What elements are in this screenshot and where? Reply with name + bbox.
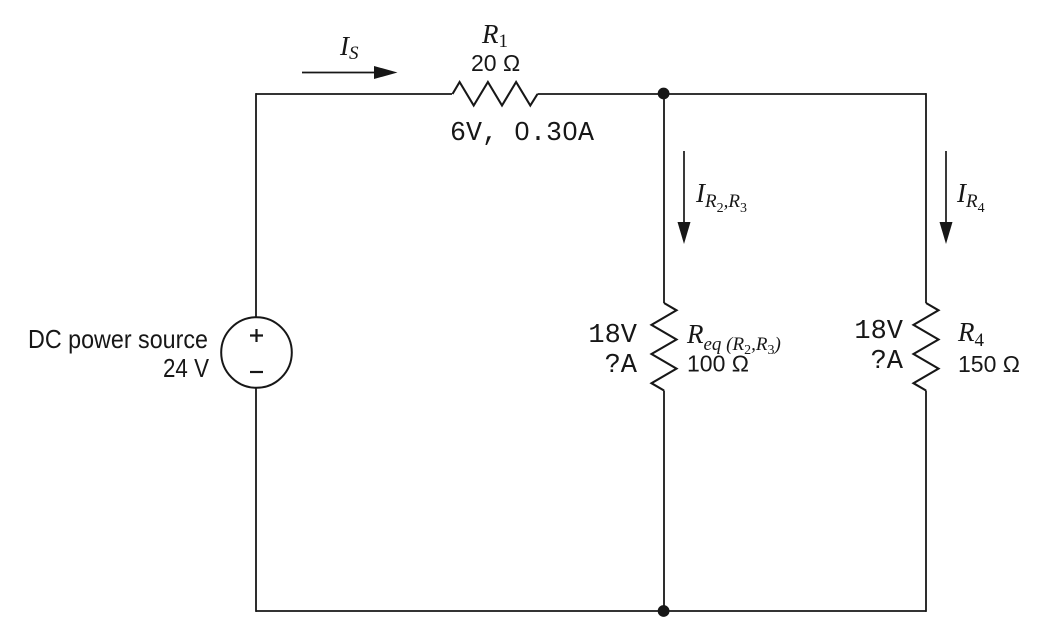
svg-text:DC power source: DC power source — [28, 324, 208, 354]
wire: top rail, left segment (source to R1) — [256, 93, 452, 95]
mask: plain zeros (cover Liberation Mono dotted-zero dots) — [520, 127, 525, 133]
resistor Req (R2,R3) zigzag, vertical — [652, 303, 677, 391]
wire: right rail upper (top rail to R4) — [925, 93, 927, 303]
current arrow IR4 (head) — [940, 222, 953, 244]
wire: left rail upper (top rail to source +) — [255, 93, 257, 317]
svg-text:?A: ?A — [871, 347, 904, 377]
wire: left rail lower (source - to bottom rail) — [255, 388, 257, 612]
svg-text:24 V: 24 V — [163, 353, 210, 383]
svg-text:20 Ω: 20 Ω — [471, 50, 520, 76]
resistor R1 (zigzag, horizontal) — [453, 82, 538, 106]
node: top junction dot — [658, 88, 670, 100]
svg-text:18V: 18V — [854, 317, 903, 347]
svg-text:150 Ω: 150 Ω — [958, 351, 1020, 377]
svg-text:6V, 0.30A: 6V, 0.30A — [450, 119, 595, 149]
V1 plus terminal mark — [250, 329, 263, 342]
svg-text:?A: ?A — [605, 351, 638, 381]
wire: bottom rail — [256, 610, 926, 612]
svg-text:18V: 18V — [588, 321, 637, 351]
svg-text:100 Ω: 100 Ω — [687, 351, 749, 377]
wire: middle rail lower (Req to bottom node) — [663, 391, 665, 612]
resistor R4 zigzag, vertical — [914, 303, 939, 391]
V1 minus terminal mark — [250, 371, 263, 373]
current arrow IS (shaft) — [302, 72, 377, 74]
wire: right rail lower (R4 to bottom rail) — [925, 391, 927, 612]
current arrow IS (head) — [374, 66, 398, 79]
wire: middle rail upper (top node to Req) — [663, 94, 665, 303]
node: bottom junction dot — [658, 605, 670, 617]
current arrow IR2,R3 (head) — [678, 222, 691, 244]
current arrow IR4 (shaft) — [945, 151, 947, 225]
current arrow IR2,R3 (shaft) — [683, 151, 685, 225]
wire: top rail, right segment (R1 to right rail) — [538, 93, 927, 95]
DC power source V1 (circle) — [221, 317, 292, 388]
